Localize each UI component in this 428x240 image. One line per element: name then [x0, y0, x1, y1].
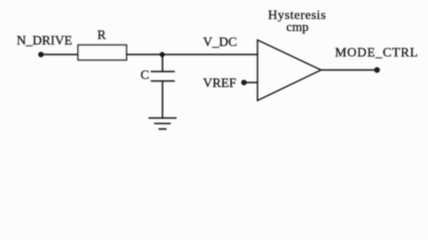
svg-text:V_DC: V_DC — [203, 34, 237, 49]
wire capacitor to ground — [162, 81, 164, 118]
wire VREF to comparator — [244, 82, 258, 84]
junction — [160, 52, 165, 57]
node MODE_CTRL — [335, 45, 418, 73]
op-amp U1 hysteresis comparator — [258, 7, 327, 100]
svg-text:C: C — [141, 67, 150, 82]
node VREF — [203, 75, 247, 90]
resistor R — [78, 27, 127, 60]
svg-text:MODE_CTRL: MODE_CTRL — [335, 45, 418, 60]
capacitor C — [141, 55, 175, 83]
wire N_DRIVE to resistor — [41, 54, 78, 56]
wire resistor to comparator input — [127, 54, 258, 56]
svg-text:cmp: cmp — [286, 19, 308, 34]
ground — [149, 118, 176, 129]
node N_DRIVE — [17, 33, 73, 58]
svg-text:VREF: VREF — [203, 75, 236, 90]
svg-text:N_DRIVE: N_DRIVE — [17, 33, 73, 48]
wire comparator output — [321, 69, 378, 71]
svg-text:R: R — [97, 27, 106, 42]
